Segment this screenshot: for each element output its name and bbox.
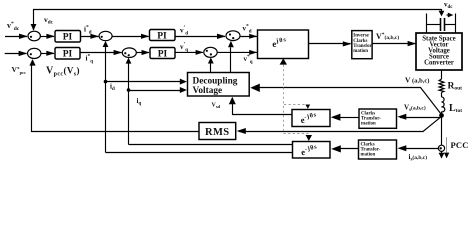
wire PI1 to S2 [81, 36, 99, 38]
junction node PCC top [439, 113, 444, 118]
sign dot S6 a [206, 50, 208, 52]
junction dot iq [127, 88, 131, 92]
arrow into S6 bottom (decoupling) [208, 57, 214, 63]
wire S4 to PI2 [41, 53, 54, 55]
arrow into PI1 [46, 34, 54, 39]
wire id branch to decoupling [106, 81, 183, 83]
wire iq bottom line to e-block3 [129, 144, 293, 146]
wire id bottom line to e-block3 [106, 152, 293, 154]
block inverse clarke [352, 31, 372, 59]
wire RMS out to S4 [32, 65, 199, 132]
arrow into S5 bottom (iq) [126, 58, 132, 64]
arrow into PI3 [141, 34, 149, 39]
sign dot S4 [30, 53, 32, 55]
arrow into e-block row2 [249, 50, 257, 55]
wire feedback to RMS (diagonal) [239, 116, 442, 131]
capacitor plate right [444, 18, 446, 31]
wire PI3 to S3 [175, 36, 225, 38]
wire PCC to clarke2 [401, 148, 439, 150]
wire PCC to grid stub [441, 152, 443, 155]
arrow into S3 [217, 34, 226, 39]
wire iq branch to decoupling [129, 90, 183, 92]
node PCC circle [438, 145, 444, 151]
wire e-block2 out to vsd [233, 102, 293, 115]
block PI3 [150, 30, 176, 41]
summing junction S3 [226, 31, 240, 41]
summing junction S1 [28, 31, 40, 41]
arrow into S5 [114, 50, 123, 55]
arrow into decoupling left (iq) [180, 87, 187, 93]
sign dot S6 b [210, 53, 212, 55]
arrow into PI4 [142, 50, 150, 55]
wire e-block2 input arrow segment [334, 117, 345, 119]
wire S3 to e-block [240, 36, 257, 38]
svg-text:RMS: RMS [205, 127, 230, 138]
arrow into S2 bottom (id) [103, 41, 109, 47]
block clarke2 [359, 140, 397, 159]
wire S5 to PI4 [137, 52, 150, 54]
summing junction S6 [204, 47, 217, 57]
arrow into S4 bottom (RMS) [29, 59, 35, 66]
arrow into converter [408, 41, 417, 46]
arrow into decoupling left (id) [180, 79, 187, 85]
wire vdc sense right stub [447, 15, 450, 16]
svg-text:PI: PI [157, 32, 167, 42]
arrow theta into e-block3 top [306, 135, 312, 141]
inductor Ltot coils [442, 97, 445, 112]
summing junction S4 [28, 48, 41, 58]
sign dot S1 [30, 36, 32, 38]
wire inductor to junction [441, 112, 443, 117]
arrow into e-block2 [331, 114, 341, 121]
arrow into S6 [196, 50, 204, 55]
wire row1 input [5, 36, 27, 38]
wire theta dashed vertical [283, 65, 285, 134]
block PI1 [55, 31, 81, 43]
wire clarke1 to e-block2 [344, 117, 359, 119]
arrow into S1 top (vdc) [31, 24, 37, 31]
wire junction to clarke1 [400, 117, 441, 119]
wire capacitor left connector [427, 24, 441, 26]
arrow into PI2 [46, 51, 55, 56]
wire vdc feedback top [34, 10, 442, 31]
wire S6 to e-block [217, 51, 257, 53]
wire feedback to decoupling (diagonal) [252, 88, 442, 115]
arrow into inverse clarke [343, 41, 352, 46]
summing junction S5 [122, 48, 136, 58]
arrow into decoupling right [250, 84, 259, 92]
wire theta dashed branch to e-block2 [284, 104, 306, 106]
arrow theta into e-block2 top [305, 105, 310, 109]
wire theta dashed branch to e-block3 [284, 133, 309, 135]
arrow into clarke1 [397, 114, 406, 120]
sign dot S3 b [232, 37, 234, 39]
arrow PCC marker down [444, 153, 449, 159]
svg-text:PI: PI [158, 49, 168, 59]
arrow into S3 bottom (decoupling) [228, 41, 234, 48]
wire decoupling to S6 [210, 64, 212, 73]
capacitor plate left [440, 18, 442, 31]
wire converter output [441, 70, 443, 79]
junction dot id [104, 80, 108, 84]
wire S2 to PI3 [112, 36, 148, 38]
block e-jtheta E2 [292, 110, 330, 127]
wire PI4 to S6 [175, 51, 203, 53]
wire capacitor right connector [445, 24, 456, 26]
wire dc-link right leg [455, 14, 457, 34]
wire junction to PCC [441, 116, 443, 145]
arrow vdc sense down [439, 11, 445, 17]
block converter [416, 33, 462, 70]
wire PCC marker line [446, 137, 448, 153]
arrow into S2 [90, 34, 99, 39]
sign dot PCC [440, 147, 442, 149]
arrow into decoupling bottom (vsd) [229, 97, 236, 105]
arrow into e-block3 [331, 145, 341, 152]
wire dc-link left leg [426, 14, 428, 34]
block PI2 [55, 48, 80, 60]
block clarke1 [359, 109, 397, 128]
wire clarke2 to e-block3 [334, 148, 359, 150]
wire S1 to PI1 [41, 36, 54, 38]
sign dot S2 [101, 36, 103, 38]
resistor Rout zigzag [439, 79, 444, 93]
block PI4 [150, 48, 175, 59]
wire inverse clarke to converter [372, 43, 415, 45]
svg-text:V (a,b,c): V (a,b,c) [405, 76, 429, 85]
arrow into S1 left [19, 34, 28, 39]
sign dot S5 a [124, 52, 126, 54]
svg-text:PI: PI [63, 33, 73, 43]
svg-text:Vsd: Vsd [212, 103, 221, 110]
wire row2 input [5, 53, 27, 55]
wire id vertical [105, 47, 107, 153]
wire iq vertical [128, 63, 130, 145]
block decoupling voltage [188, 73, 250, 97]
block e-jtheta E3 [293, 142, 331, 159]
arrow theta into e-block1 [280, 58, 287, 64]
wire decoupling to S3 [230, 48, 232, 73]
wire PI2 to S5 [80, 52, 121, 54]
arrow into clarke2 [397, 145, 406, 151]
summing junction S2 [99, 31, 112, 40]
wire e-block to inverse clarke [309, 43, 351, 45]
svg-text:PCC: PCC [451, 140, 469, 150]
arrow below PCC [439, 153, 445, 159]
sign dot S5 b [128, 54, 130, 56]
wire resistor to inductor [441, 93, 443, 98]
sign dot S3 a [229, 33, 231, 35]
arrow into S4 [19, 51, 28, 56]
arrow into e-block row1 [249, 34, 257, 39]
arrow vdc sense right [448, 13, 454, 18]
arrow into RMS right [237, 128, 246, 134]
svg-text:PI: PI [63, 50, 73, 60]
block e-jtheta E1 [258, 30, 309, 59]
block RMS [199, 123, 236, 140]
